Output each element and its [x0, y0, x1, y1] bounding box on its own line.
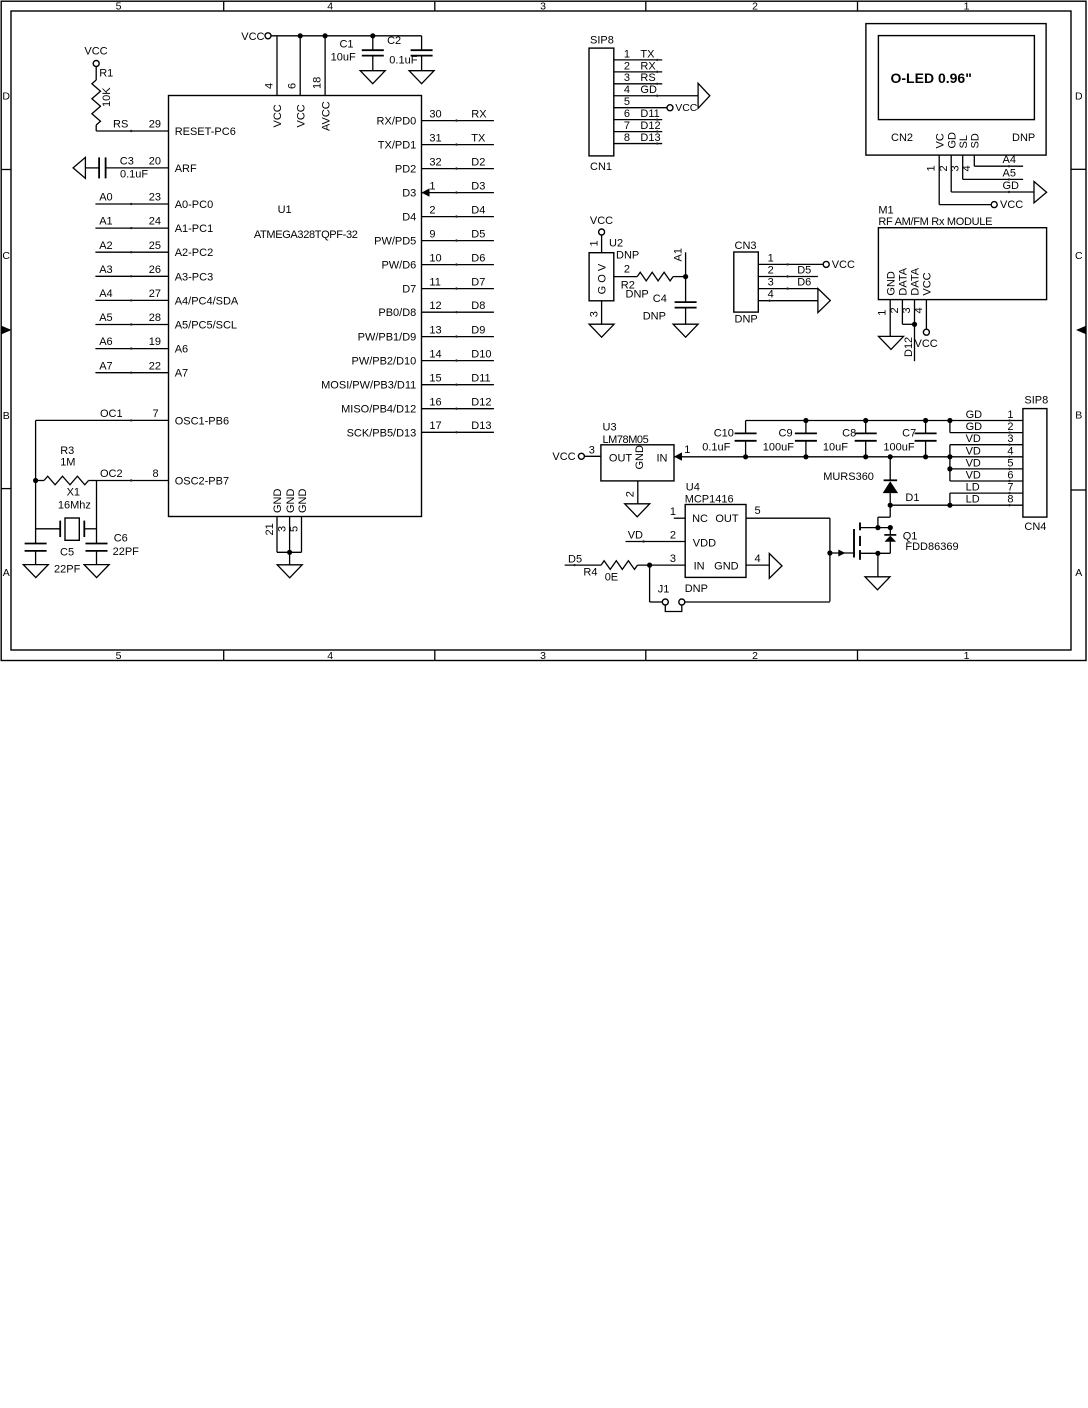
svg-text:17: 17 — [429, 420, 441, 432]
frame row ticks right — [1071, 168, 1086, 170]
svg-text:RESET-PC6: RESET-PC6 — [175, 126, 236, 138]
svg-text:4: 4 — [913, 307, 925, 313]
svg-text:3: 3 — [589, 445, 595, 457]
svg-text:15: 15 — [429, 373, 441, 385]
svg-text:10: 10 — [429, 252, 441, 264]
svg-text:C: C — [1075, 250, 1083, 262]
wire U1 pin 10 net D6 — [422, 264, 494, 266]
junction at R4/J1 — [647, 563, 652, 568]
svg-text:21: 21 — [264, 523, 276, 535]
wire CN1 pin 8 — [614, 143, 662, 145]
svg-text:5: 5 — [288, 526, 300, 532]
wire CN2 pin 3 net A5 — [962, 155, 964, 179]
svg-text:8: 8 — [152, 468, 158, 480]
ground below Q1 — [865, 577, 890, 590]
svg-text:23: 23 — [149, 192, 161, 204]
svg-text:14: 14 — [429, 348, 441, 360]
U2 body — [589, 253, 614, 301]
svg-text:A: A — [1075, 567, 1082, 579]
svg-text:R4: R4 — [583, 566, 597, 578]
op U1 body — [169, 96, 422, 517]
svg-text:CN4: CN4 — [1024, 521, 1046, 533]
svg-text:3: 3 — [276, 526, 288, 532]
wire U2 pin 2 to R2 — [614, 276, 637, 278]
svg-text:D11: D11 — [640, 108, 659, 120]
VCC symbol at CN3 pin 1 — [823, 261, 829, 267]
svg-text:B: B — [1075, 410, 1082, 422]
svg-text:2: 2 — [752, 650, 758, 662]
wire CN4 pin 4 net VD — [950, 456, 1023, 458]
svg-text:A6: A6 — [175, 344, 188, 356]
svg-text:FDD86369: FDD86369 — [905, 541, 958, 553]
svg-text:28: 28 — [149, 312, 161, 324]
connector CN4 SIP8 body — [1023, 409, 1047, 517]
svg-text:ATMEGA328TQPF-32: ATMEGA328TQPF-32 — [254, 229, 358, 241]
wire net A2 to U1 pin 25 — [95, 251, 168, 253]
connector CN1 SIP8 body — [589, 48, 614, 156]
wire pin6 VCC stub — [299, 36, 301, 96]
svg-text:3: 3 — [540, 0, 546, 12]
svg-text:RX/PD0: RX/PD0 — [377, 116, 417, 128]
svg-text:U2: U2 — [609, 237, 623, 249]
svg-text:A3-PC3: A3-PC3 — [175, 271, 214, 283]
svg-text:8: 8 — [1007, 494, 1013, 506]
svg-text:A5: A5 — [1003, 167, 1016, 179]
svg-text:SCK/PB5/D13: SCK/PB5/D13 — [347, 427, 417, 439]
svg-text:A1: A1 — [673, 248, 685, 261]
wire VCC rail — [271, 35, 422, 37]
svg-text:A4: A4 — [1003, 154, 1016, 166]
wire CN4 pin 7 net LD — [950, 492, 1023, 494]
svg-text:C9: C9 — [779, 427, 793, 439]
svg-text:2: 2 — [938, 165, 950, 171]
svg-text:DNP: DNP — [735, 313, 758, 325]
svg-text:5: 5 — [755, 505, 761, 517]
svg-text:D10: D10 — [471, 348, 491, 360]
svg-text:2: 2 — [752, 0, 758, 12]
svg-text:C7: C7 — [902, 427, 916, 439]
junction at C1 — [370, 33, 375, 38]
svg-text:DNP: DNP — [685, 583, 708, 595]
VCC symbol at CN2 pin 1 — [991, 202, 997, 208]
wire U1 GND pin 21 stub — [276, 517, 278, 553]
svg-text:A5: A5 — [99, 312, 112, 324]
svg-text:VCC: VCC — [272, 104, 284, 127]
svg-text:TX/PD1: TX/PD1 — [378, 140, 417, 152]
junction at LD — [888, 503, 893, 508]
svg-text:D12: D12 — [471, 397, 491, 409]
svg-text:25: 25 — [149, 240, 161, 252]
crystal X1 — [36, 528, 61, 530]
svg-text:D3: D3 — [471, 180, 485, 192]
svg-text:VD: VD — [966, 470, 981, 482]
svg-text:2: 2 — [768, 265, 774, 277]
svg-text:PW/PB2/D10: PW/PB2/D10 — [351, 356, 416, 368]
wire U4 OUT to gate and J1 — [829, 518, 831, 601]
svg-text:7: 7 — [1007, 482, 1013, 494]
svg-text:C6: C6 — [114, 533, 128, 545]
wire U1 pin 16 net D12 — [422, 408, 494, 410]
svg-text:10K: 10K — [101, 87, 113, 107]
resistor R1 — [95, 67, 97, 81]
capacitor C10 — [745, 421, 747, 434]
svg-text:OC1: OC1 — [100, 408, 123, 420]
wire OC2 vertical — [96, 481, 98, 544]
wire CN1 pin 5 — [614, 107, 667, 109]
capacitor C3 — [98, 157, 100, 178]
wire U3 pin 3 — [584, 455, 601, 457]
svg-text:6: 6 — [624, 108, 630, 120]
svg-text:A1: A1 — [99, 216, 112, 228]
U3 GND stub — [637, 481, 639, 504]
wire M1 pin 1 to ground — [889, 300, 891, 337]
svg-text:1: 1 — [429, 180, 435, 192]
frame center mark arrow right — [1076, 326, 1086, 335]
svg-text:VCC: VCC — [832, 259, 855, 271]
svg-text:VCC: VCC — [241, 31, 264, 43]
resistor R2 (DNP) — [637, 272, 673, 281]
wire GD top rail — [746, 420, 950, 422]
wire CN4 pin 3 net VD — [950, 444, 1023, 446]
svg-text:PW/PB1/D9: PW/PB1/D9 — [358, 332, 417, 344]
svg-text:D6: D6 — [797, 277, 811, 289]
svg-text:GD: GD — [966, 409, 983, 421]
wire U4 pin 2 VDD net VD — [626, 541, 686, 543]
wire CN3 pin 3 net D6 — [758, 288, 818, 290]
svg-text:2: 2 — [670, 530, 676, 542]
wire U1 pin 11 net D7 — [422, 288, 494, 290]
wire RS to RESET pin 29 — [95, 125, 97, 131]
junction at A1 — [683, 274, 688, 279]
svg-text:100uF: 100uF — [883, 442, 914, 454]
wire U4 pin 5 OUT — [746, 517, 830, 519]
wire GND stub join — [277, 551, 302, 553]
svg-text:O-LED 0.96": O-LED 0.96" — [891, 70, 972, 86]
VCC symbol at CN1 pin 5 — [667, 105, 673, 111]
svg-text:32: 32 — [429, 156, 441, 168]
svg-text:2: 2 — [1007, 421, 1013, 433]
wire M1 pin 3 net D12 — [914, 300, 916, 362]
wire CN1 pin 7 — [614, 131, 662, 133]
wire U1 pin 31 net TX — [422, 144, 494, 146]
svg-text:B: B — [3, 410, 10, 422]
svg-text:RX: RX — [640, 60, 656, 72]
ground below U2 — [589, 324, 614, 337]
wire U1 pin 15 net D11 — [422, 384, 494, 386]
transistor Q1 FDD86369 — [878, 516, 890, 518]
svg-text:9: 9 — [429, 228, 435, 240]
svg-text:16Mhz: 16Mhz — [58, 499, 91, 511]
svg-text:TX: TX — [471, 132, 486, 144]
off-page arrow GD — [1034, 182, 1047, 203]
svg-text:1: 1 — [964, 650, 970, 662]
svg-text:OUT: OUT — [715, 513, 739, 525]
svg-text:C8: C8 — [842, 427, 856, 439]
svg-text:4: 4 — [624, 84, 630, 96]
wire CN1 pin 1 — [614, 59, 662, 61]
wire net A3 to U1 pin 26 — [95, 275, 168, 277]
svg-text:0E: 0E — [605, 572, 618, 584]
wire net A7 to U1 pin 22 — [95, 372, 168, 374]
wire U1 pin 17 net D13 — [422, 431, 494, 433]
svg-text:2: 2 — [889, 307, 901, 313]
svg-text:4: 4 — [755, 553, 761, 565]
svg-text:D2: D2 — [471, 156, 485, 168]
ground below U3 — [625, 504, 650, 517]
capacitor C7 — [925, 421, 927, 434]
ground below C5 — [23, 565, 48, 578]
ground below C1 — [360, 71, 385, 84]
svg-text:D7: D7 — [471, 276, 485, 288]
capacitor C9 — [805, 421, 807, 434]
capacitor C2 — [421, 36, 423, 50]
svg-text:IN: IN — [694, 561, 705, 573]
svg-text:0.1uF: 0.1uF — [702, 442, 730, 454]
capacitor C5 — [25, 543, 47, 545]
svg-text:OSC2-PB7: OSC2-PB7 — [175, 476, 229, 488]
wire U1 pin 1 net D3 — [422, 192, 494, 194]
svg-text:5: 5 — [624, 96, 630, 108]
svg-text:D5: D5 — [471, 228, 485, 240]
sheet inner border frame — [11, 11, 1071, 650]
svg-text:LD: LD — [966, 494, 980, 506]
svg-text:7: 7 — [624, 120, 630, 132]
svg-text:C5: C5 — [60, 547, 74, 559]
svg-text:R1: R1 — [99, 68, 113, 80]
wire U2 pin 3 — [601, 301, 603, 324]
svg-text:A: A — [3, 567, 10, 579]
ground below C6 — [84, 565, 109, 578]
svg-text:D12: D12 — [903, 337, 915, 357]
junctions on GD rail — [803, 418, 808, 423]
svg-text:30: 30 — [429, 108, 441, 120]
frame row ticks left — [1, 169, 11, 171]
wire CN4 pin 2 net GD — [950, 432, 1023, 434]
wire U4 pin 4 GND — [746, 564, 769, 566]
wire CN1 pin 4 — [614, 95, 698, 97]
svg-text:G O V: G O V — [597, 263, 609, 294]
svg-text:GND: GND — [885, 271, 897, 296]
svg-text:D12: D12 — [640, 120, 660, 132]
wire CN2 pin 1 to VCC — [938, 155, 940, 205]
VCC symbol at M1 pin 4 — [923, 329, 929, 335]
svg-text:13: 13 — [429, 324, 441, 336]
svg-text:4: 4 — [768, 289, 774, 301]
svg-text:D5: D5 — [797, 265, 811, 277]
svg-text:OC2: OC2 — [100, 468, 123, 480]
wire CN3 pin 4 — [758, 300, 818, 302]
svg-text:0.1uF: 0.1uF — [120, 169, 148, 181]
wire U1 pin 9 net D5 — [422, 240, 494, 242]
svg-text:2: 2 — [624, 263, 630, 275]
svg-text:VCC: VCC — [1000, 199, 1023, 211]
input port arrow at C3 — [73, 157, 85, 178]
svg-text:1: 1 — [588, 240, 600, 246]
svg-text:SL: SL — [958, 135, 970, 148]
ground below C2 — [409, 71, 434, 84]
svg-text:D1: D1 — [905, 492, 919, 504]
wire CN4 pin 1 net GD — [950, 420, 1023, 422]
svg-text:1: 1 — [926, 165, 938, 171]
svg-text:RS: RS — [113, 119, 128, 131]
svg-text:C: C — [2, 250, 10, 262]
svg-text:12: 12 — [429, 300, 441, 312]
svg-text:VD: VD — [966, 445, 981, 457]
svg-text:4: 4 — [327, 650, 333, 662]
svg-text:LD: LD — [966, 482, 980, 494]
wire CN2 pin 2 net GD — [950, 155, 952, 192]
wire U1 pin 12 net D8 — [422, 311, 494, 313]
svg-text:D3: D3 — [402, 188, 416, 200]
ground below U1 — [277, 565, 302, 578]
svg-text:GD: GD — [1003, 180, 1020, 192]
net A1 wire — [685, 252, 687, 302]
ground below C4 — [673, 324, 698, 337]
wire CN3 pin 2 net D5 — [758, 276, 818, 278]
junction at R3 left — [33, 478, 38, 483]
svg-text:3: 3 — [670, 553, 676, 565]
svg-text:CN1: CN1 — [590, 161, 612, 173]
capacitor C8 — [865, 421, 867, 434]
svg-text:A4: A4 — [99, 288, 112, 300]
wire U4 pin 1 NC stub — [674, 517, 685, 519]
svg-text:PB0/D8: PB0/D8 — [378, 307, 416, 319]
svg-text:R3: R3 — [60, 445, 74, 457]
junction CN4 pin 5 — [947, 466, 952, 471]
wire CN4 pin 5 net VD — [950, 468, 1023, 470]
svg-text:A3: A3 — [99, 264, 112, 276]
svg-text:MISO/PB4/D12: MISO/PB4/D12 — [341, 404, 416, 416]
wire U1 pin 32 net D2 — [422, 168, 494, 170]
svg-text:3: 3 — [588, 311, 600, 317]
wire CN4 pin7-pin8 tie — [949, 493, 951, 505]
capacitor C1 — [372, 36, 374, 50]
wire net A1 to U1 pin 24 — [95, 227, 168, 229]
svg-text:DATA: DATA — [898, 267, 910, 295]
svg-text:8: 8 — [624, 132, 630, 144]
U4 body — [685, 505, 746, 578]
svg-text:24: 24 — [149, 216, 161, 228]
svg-text:U3: U3 — [603, 422, 617, 434]
svg-text:VCC: VCC — [675, 102, 698, 114]
wire U1 pin 14 net D10 — [422, 360, 494, 362]
net anchor dots — [455, 119, 457, 121]
svg-text:22: 22 — [149, 360, 161, 372]
wire net D5 — [565, 564, 601, 566]
svg-text:5: 5 — [1007, 457, 1013, 469]
svg-text:18: 18 — [312, 77, 324, 89]
junction at pin6 stub — [298, 33, 303, 38]
svg-text:7: 7 — [152, 408, 158, 420]
off-page arrow GD (CN1 pin 4) — [698, 83, 710, 108]
svg-text:A5/PC5/SCL: A5/PC5/SCL — [175, 320, 237, 332]
svg-text:26: 26 — [149, 264, 161, 276]
wire CN4 pin3-pin6 tie — [949, 445, 951, 481]
wire CN2 pin 4 net A4 — [973, 155, 975, 166]
module CN2 O-LED body — [866, 24, 1046, 156]
svg-text:C4: C4 — [653, 293, 667, 305]
svg-text:D8: D8 — [471, 300, 485, 312]
svg-text:C3: C3 — [120, 155, 134, 167]
svg-text:D: D — [1075, 91, 1083, 103]
wire pin4 VCC stub — [276, 36, 278, 96]
diode D1 MURS360 — [889, 457, 891, 481]
svg-text:AVCC: AVCC — [320, 101, 332, 131]
svg-text:D6: D6 — [471, 252, 485, 264]
svg-text:6: 6 — [1007, 470, 1013, 482]
svg-text:SIP8: SIP8 — [590, 35, 614, 47]
svg-text:0.1uF: 0.1uF — [389, 54, 417, 66]
sheet outer border frame — [1, 1, 1086, 660]
svg-text:IN: IN — [657, 452, 668, 464]
svg-text:M1: M1 — [878, 204, 893, 216]
gate input arrow — [838, 550, 845, 557]
svg-text:100uF: 100uF — [763, 442, 794, 454]
module M1 body — [878, 228, 1046, 300]
svg-text:3: 3 — [540, 650, 546, 662]
svg-text:A6: A6 — [99, 336, 112, 348]
svg-text:MURS360: MURS360 — [823, 471, 874, 483]
svg-text:A7: A7 — [175, 368, 188, 380]
svg-text:OUT: OUT — [609, 452, 633, 464]
input arrow on pin 1 (D3) — [422, 188, 430, 196]
svg-text:10uF: 10uF — [823, 442, 848, 454]
svg-text:VCC: VCC — [84, 45, 107, 57]
svg-text:29: 29 — [149, 119, 161, 131]
svg-text:GD: GD — [966, 421, 983, 433]
svg-text:1M: 1M — [60, 456, 75, 468]
jumper J1 (DNP) — [649, 565, 651, 602]
wire M1 pin 2 — [901, 300, 903, 325]
svg-text:3: 3 — [949, 165, 961, 171]
wire U2 pin 1 — [601, 235, 603, 253]
svg-text:4: 4 — [961, 165, 973, 171]
wire U1 pin 13 net D9 — [422, 336, 494, 338]
svg-text:D4: D4 — [402, 212, 416, 224]
svg-text:1: 1 — [877, 310, 889, 316]
svg-text:C1: C1 — [339, 39, 353, 51]
svg-text:22PF: 22PF — [113, 546, 140, 558]
svg-text:RS: RS — [640, 72, 655, 84]
wire OC1 to U1 pin 7 — [36, 419, 169, 421]
svg-text:VCC: VCC — [915, 338, 938, 350]
wire to ground — [289, 552, 291, 565]
svg-text:DNP: DNP — [643, 310, 666, 322]
svg-text:A4/PC4/SDA: A4/PC4/SDA — [175, 295, 239, 307]
svg-text:D11: D11 — [471, 373, 490, 385]
svg-text:SIP8: SIP8 — [1024, 394, 1048, 406]
svg-text:4: 4 — [1007, 445, 1013, 457]
wire gate — [830, 552, 854, 554]
svg-text:MOSI/PW/PB3/D11: MOSI/PW/PB3/D11 — [321, 380, 416, 392]
svg-text:5: 5 — [116, 650, 122, 662]
svg-text:27: 27 — [149, 288, 161, 300]
svg-text:U4: U4 — [686, 481, 700, 493]
svg-text:6: 6 — [287, 83, 299, 89]
svg-text:4: 4 — [263, 83, 275, 89]
wire CN4 pin1-pin2 tie — [949, 421, 951, 433]
wire OC2 to U1 pin 8 — [97, 480, 169, 482]
off-page arrow at U4 GND — [769, 554, 782, 579]
wire net A0 to U1 pin 23 — [95, 203, 168, 205]
wire CN1 pin 2 — [614, 71, 662, 73]
svg-text:16: 16 — [429, 397, 441, 409]
wire net A6 to U1 pin 19 — [95, 348, 168, 350]
svg-text:RX: RX — [471, 108, 487, 120]
svg-text:22PF: 22PF — [54, 564, 81, 576]
svg-text:PW/D6: PW/D6 — [381, 260, 416, 272]
wire net A5 to U1 pin 28 — [95, 324, 168, 326]
